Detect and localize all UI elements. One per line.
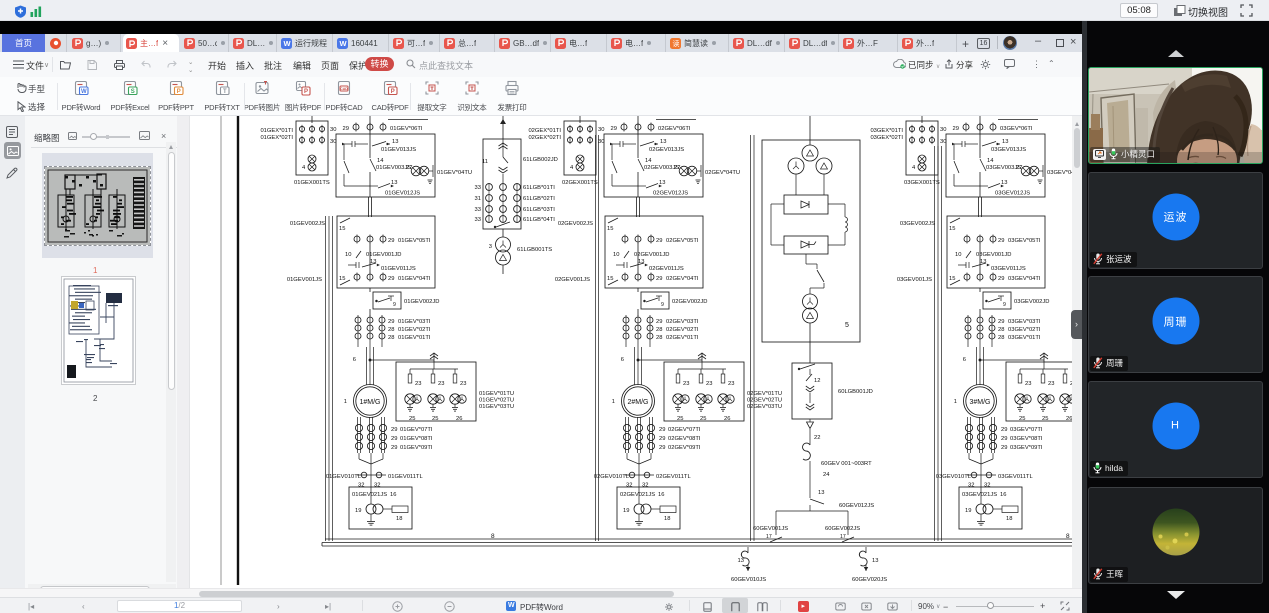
breaker 03GEV003JS: [953, 144, 955, 160]
svg-text:T: T: [223, 89, 227, 95]
resistor 18: [1002, 506, 1018, 513]
wire to surge cubicle: [370, 359, 434, 361]
CT 03GEV*04TI: [964, 274, 970, 280]
svg-text:14: 14: [987, 158, 994, 164]
svg-text:W: W: [339, 39, 347, 48]
bay 1 left fence: [325, 216, 327, 541]
svg-text:15: 15: [607, 226, 613, 232]
resistor 18: [660, 506, 676, 513]
svg-text:16: 16: [1000, 492, 1006, 498]
svg-text:3: 3: [489, 244, 492, 250]
svg-text:26: 26: [724, 416, 730, 422]
wire bus top bay 02: [637, 116, 639, 134]
svg-text:32: 32: [968, 483, 974, 489]
svg-text:28: 28: [656, 335, 662, 341]
svg-text:1: 1: [344, 399, 347, 405]
svg-text:02GEV011JS: 02GEV011JS: [649, 266, 684, 272]
svg-text:02GEV001JD: 02GEV001JD: [634, 252, 669, 258]
svg-text:13: 13: [391, 180, 397, 186]
svg-text:02GEV013JS: 02GEV013JS: [649, 147, 684, 153]
svg-text:30: 30: [330, 127, 336, 133]
svg-text:03GEV*05TI: 03GEV*05TI: [1008, 238, 1041, 244]
svg-text:13: 13: [660, 139, 666, 145]
svg-text:61LGB*02TI: 61LGB*02TI: [523, 196, 555, 202]
svg-text:18: 18: [664, 516, 670, 522]
bay 3 left fence: [934, 146, 936, 541]
svg-text:8: 8: [1066, 533, 1070, 540]
svg-text:30: 30: [940, 127, 946, 133]
svg-text:02GEV002JD: 02GEV002JD: [672, 299, 707, 305]
svg-text:9: 9: [1003, 302, 1006, 308]
svg-text:19: 19: [965, 508, 971, 514]
svg-text:1: 1: [954, 399, 957, 405]
svg-text:10: 10: [345, 252, 351, 258]
svg-text:02GEV*04TI: 02GEV*04TI: [666, 276, 699, 282]
svg-text:9: 9: [661, 302, 664, 308]
CT stack 01GEV*07TI..09TI: [357, 417, 359, 453]
svg-text:02GEV*01TU: 02GEV*01TU: [747, 391, 782, 397]
svg-text:03GEV*08TI: 03GEV*08TI: [1010, 436, 1043, 442]
disconnector 01GEV013JS: [342, 143, 352, 145]
svg-text:17: 17: [766, 534, 772, 540]
svg-text:33: 33: [475, 217, 481, 223]
svg-text:23: 23: [460, 381, 466, 387]
svg-text:03GEX*02TI: 03GEX*02TI: [870, 135, 903, 141]
excitation cubicle 5: [762, 140, 860, 342]
neutral transformer 19: [634, 504, 644, 514]
PT cubicle 03GEX001TS: [906, 121, 938, 175]
earthing switch 60GEV020JS: [865, 547, 867, 553]
svg-text:29: 29: [659, 436, 665, 442]
svg-text:1: 1: [612, 399, 615, 405]
svg-text:13: 13: [392, 139, 398, 145]
svg-text:15: 15: [339, 276, 345, 282]
svg-text:02GEV*08TI: 02GEV*08TI: [668, 436, 701, 442]
svg-text:02GEV*02TI: 02GEV*02TI: [666, 327, 699, 333]
svg-text:61LGB*03TI: 61LGB*03TI: [523, 207, 555, 213]
svg-text:60GEV001JS: 60GEV001JS: [753, 526, 788, 532]
svg-text:CAD: CAD: [340, 87, 348, 91]
svg-text:1#M/G: 1#M/G: [359, 399, 380, 406]
wire below 61LGB001TS: [502, 265, 504, 274]
svg-text:01GEV011JS: 01GEV011JS: [381, 266, 416, 272]
svg-text:16: 16: [658, 492, 664, 498]
switch in 61LGB002JD: [496, 222, 510, 227]
svg-text:29: 29: [953, 126, 959, 132]
wire split: [809, 505, 811, 511]
thumbnail 2: [61, 276, 136, 385]
wire to 60LGB001JD: [809, 323, 811, 363]
disconnector 03GEV013JS: [952, 143, 962, 145]
svg-text:02GEV001JS: 02GEV001JS: [555, 277, 590, 283]
thyristor bridge: [784, 236, 828, 254]
up arrow: [1168, 50, 1184, 57]
svg-text:23: 23: [683, 381, 689, 387]
svg-text:03GEV021JS: 03GEV021JS: [962, 492, 997, 498]
arrester cluster 01: [405, 394, 415, 404]
svg-text:13: 13: [659, 180, 665, 186]
arrester cluster 03: [1038, 394, 1048, 404]
svg-text:02GEX*02TI: 02GEX*02TI: [528, 135, 561, 141]
breaker cubicle bay 01: [336, 134, 435, 197]
svg-text:03GEV002JD: 03GEV002JD: [1014, 299, 1049, 305]
svg-text:29: 29: [656, 276, 662, 282]
neutral transformer 19: [976, 504, 986, 514]
CT 02GEV*05TI: [622, 236, 628, 242]
disconnector 01GEV011JS: [348, 264, 356, 266]
wire to surge cubicle: [980, 359, 1044, 361]
svg-text:01GEV010TL: 01GEV010TL: [326, 474, 362, 480]
bay 1/2 separator fence: [595, 135, 597, 541]
svg-text:25: 25: [432, 416, 438, 422]
drawing frame outer line: [220, 116, 222, 585]
svg-text:23: 23: [706, 381, 712, 387]
earthing switch 60GEV010JS: [747, 547, 749, 553]
svg-text:读: 读: [672, 39, 679, 48]
svg-text:03GEV*09TI: 03GEV*09TI: [1010, 445, 1043, 451]
svg-text:8: 8: [491, 533, 495, 540]
arrester cluster 02: [718, 394, 728, 404]
svg-text:6: 6: [963, 357, 966, 363]
svg-text:02GEV021JS: 02GEV021JS: [620, 492, 655, 498]
svg-text:01GEX*02TI: 01GEX*02TI: [260, 135, 293, 141]
CT 02GEV*04TI: [622, 274, 628, 280]
disconnect cubicle bay 02: [605, 216, 703, 288]
wire stack to generator 01: [366, 347, 368, 385]
svg-text:01GEV012JS: 01GEV012JS: [385, 191, 420, 197]
svg-text:28: 28: [388, 327, 394, 333]
svg-text:29: 29: [388, 276, 394, 282]
wire stack to generator 03: [976, 347, 978, 385]
arrow up: [500, 119, 506, 124]
surge cubicle 03GEV*TU: [1006, 362, 1086, 421]
svg-text:03GEV*07TI: 03GEV*07TI: [1010, 427, 1043, 433]
svg-text:01GEV011TL: 01GEV011TL: [388, 474, 423, 480]
svg-text:23: 23: [1048, 381, 1054, 387]
surge cubicle 02GEV*TU: [664, 362, 744, 421]
svg-text:6: 6: [621, 357, 624, 363]
svg-text:9: 9: [393, 302, 396, 308]
panel scrollbars: [166, 142, 176, 582]
svg-text:23: 23: [438, 381, 444, 387]
rectifier bridge: [784, 195, 828, 214]
svg-text:13: 13: [738, 558, 744, 564]
svg-text:23: 23: [415, 381, 421, 387]
svg-text:02GEV*03TU: 02GEV*03TU: [747, 404, 782, 410]
svg-text:03GEX*01TI: 03GEX*01TI: [870, 128, 903, 134]
arrester cluster 03: [1015, 394, 1025, 404]
svg-text:19: 19: [355, 508, 361, 514]
svg-text:30: 30: [940, 139, 946, 145]
svg-text:01GEV*06TI: 01GEV*06TI: [390, 126, 423, 132]
svg-text:14: 14: [645, 158, 652, 164]
wire converge: [358, 453, 360, 459]
svg-text:10: 10: [613, 252, 619, 258]
svg-text:30: 30: [330, 139, 336, 145]
wire loop: [771, 203, 784, 205]
CT 01GEV*04TI: [354, 274, 360, 280]
svg-text:5: 5: [845, 322, 849, 329]
CT 03GEV*05TI: [964, 236, 970, 242]
svg-text:2#M/G: 2#M/G: [627, 399, 648, 406]
down arrow: [1167, 591, 1185, 599]
svg-text:31: 31: [475, 196, 481, 202]
disconnector 60GEV012JS: [809, 461, 811, 498]
arrester cluster 03: [1060, 394, 1070, 404]
capacitor 23 (03): [1042, 369, 1044, 374]
svg-text:15: 15: [949, 226, 955, 232]
svg-text:32: 32: [984, 483, 990, 489]
drawing frame inner thick line: [237, 116, 239, 585]
wire 61LGB feeder: [502, 116, 504, 139]
svg-text:19: 19: [623, 508, 629, 514]
CT 01GEV*05TI: [354, 236, 360, 242]
svg-text:4: 4: [302, 165, 306, 171]
excitation transformer pair: [809, 288, 811, 294]
svg-text:23: 23: [728, 381, 734, 387]
svg-text:P: P: [304, 89, 308, 95]
svg-text:29: 29: [659, 427, 665, 433]
svg-text:13: 13: [872, 558, 878, 564]
svg-text:23: 23: [1025, 381, 1031, 387]
svg-text:29: 29: [388, 238, 394, 244]
svg-text:02GEX*01TI: 02GEX*01TI: [528, 128, 561, 134]
arrester cluster 02: [673, 394, 683, 404]
svg-text:01GEV001JD: 01GEV001JD: [366, 252, 401, 258]
tile 张运波: [1088, 172, 1263, 269]
svg-text:18: 18: [396, 516, 402, 522]
disconnect cubicle bay 01: [337, 216, 435, 288]
webcam tile 小精灵: [1088, 67, 1263, 164]
svg-text:30: 30: [598, 127, 604, 133]
PT cubicle 02GEX001TS: [564, 121, 596, 175]
svg-text:W: W: [283, 39, 291, 48]
inductor: [845, 217, 848, 232]
svg-text:60LGB001JD: 60LGB001JD: [838, 389, 873, 395]
svg-text:03GEV*03TI: 03GEV*03TI: [1008, 319, 1041, 325]
svg-text:28: 28: [998, 327, 1004, 333]
svg-text:61LGB002JD: 61LGB002JD: [523, 157, 558, 163]
svg-text:02GEV012JS: 02GEV012JS: [653, 191, 688, 197]
breaker cubicle bay 03: [946, 134, 1045, 197]
svg-text:13: 13: [1002, 139, 1008, 145]
svg-text:26: 26: [456, 416, 462, 422]
svg-text:03GEV010TL: 03GEV010TL: [936, 474, 972, 480]
neutral transformer 19: [366, 504, 376, 514]
svg-text:W: W: [81, 89, 87, 95]
svg-text:01GEX001TS: 01GEX001TS: [294, 180, 330, 186]
svg-text:60GEV010JS: 60GEV010JS: [731, 577, 766, 583]
ground at breaker box: [696, 179, 701, 181]
svg-text:01GEV*04TI: 01GEV*04TI: [398, 276, 431, 282]
wire excitation feeder: [809, 116, 811, 145]
svg-text:4: 4: [912, 165, 916, 171]
svg-text:03GEV*04TI: 03GEV*04TI: [1008, 276, 1041, 282]
thumbnail 1 selected: [42, 153, 153, 258]
svg-text:29: 29: [391, 436, 397, 442]
svg-text:60GEV 001~003RT: 60GEV 001~003RT: [821, 461, 872, 467]
earthing switch 02GEV002JD: [637, 288, 639, 292]
svg-text:61LGB001TS: 61LGB001TS: [517, 247, 552, 253]
wire stack to generator 02: [634, 347, 636, 385]
svg-text:01GEV*08TI: 01GEV*08TI: [400, 436, 433, 442]
svg-text:15: 15: [339, 226, 345, 232]
svg-text:03GEV002JS: 03GEV002JS: [900, 221, 935, 227]
svg-text:29: 29: [1001, 436, 1007, 442]
svg-text:25: 25: [1042, 416, 1048, 422]
tile 周珊: [1088, 276, 1263, 373]
svg-text:32: 32: [374, 483, 380, 489]
disconnector 03GEV011JS: [958, 264, 966, 266]
svg-text:14: 14: [377, 158, 384, 164]
svg-text:29: 29: [998, 238, 1004, 244]
svg-text:29: 29: [998, 319, 1004, 325]
svg-text:25: 25: [1019, 416, 1025, 422]
svg-text:03GEV*01TI: 03GEV*01TI: [1008, 335, 1041, 341]
capacitor 23 (02): [722, 369, 724, 374]
svg-text:29: 29: [343, 126, 349, 132]
neutral cubicle 03GEV021JS: [959, 487, 1022, 529]
svg-text:17: 17: [840, 534, 846, 540]
svg-text:01GEV*03TI: 01GEV*03TI: [398, 319, 431, 325]
svg-text:02GEV*05TI: 02GEV*05TI: [666, 238, 699, 244]
fuse 60GEV 001~003RT: [809, 429, 811, 445]
svg-text:02GEV002JS: 02GEV002JS: [558, 221, 593, 227]
capacitor 23 (01): [432, 369, 434, 374]
capacitor 23 (01): [454, 369, 456, 374]
CT stack 03GEV*01TI..03TI: [967, 315, 969, 347]
svg-text:02GEV*03TI: 02GEV*03TI: [666, 319, 699, 325]
capacitor 23 (01): [409, 369, 411, 374]
svg-text:25: 25: [677, 416, 683, 422]
CT stack 02GEV*07TI..09TI: [625, 417, 627, 453]
capacitor 23 (02): [677, 369, 679, 374]
svg-text:02GEV*09TI: 02GEV*09TI: [668, 445, 701, 451]
bottom frame lines: [325, 538, 1074, 540]
svg-text:01GEX*01TI: 01GEX*01TI: [260, 128, 293, 134]
surge cubicle 01GEV*TU: [396, 362, 476, 421]
wire bus top bay 01: [369, 116, 371, 134]
svg-text:P: P: [391, 89, 395, 95]
svg-text:61LGB*04TI: 61LGB*04TI: [523, 217, 555, 223]
disconnector 02GEV013JS: [610, 143, 620, 145]
svg-text:03GEV*02TI: 03GEV*02TI: [1008, 327, 1041, 333]
svg-text:02GEV011TL: 02GEV011TL: [656, 474, 691, 480]
arrester cluster 01: [450, 394, 460, 404]
svg-text:01GEV*07TI: 01GEV*07TI: [400, 427, 433, 433]
capacitor 23 (02): [700, 369, 702, 374]
ground at breaker box: [428, 179, 433, 181]
svg-text:P: P: [177, 89, 181, 95]
breaker 01GEV003JS: [343, 144, 345, 160]
svg-text:29: 29: [1001, 427, 1007, 433]
open arrow: [809, 419, 811, 422]
svg-text:22: 22: [814, 435, 820, 441]
svg-text:03GEV*06TI: 03GEV*06TI: [1000, 126, 1033, 132]
svg-text:S: S: [131, 89, 135, 95]
tile 王晖: [1088, 487, 1263, 584]
svg-text:01GEV002JD: 01GEV002JD: [404, 299, 439, 305]
svg-text:29: 29: [391, 445, 397, 451]
svg-text:28: 28: [656, 327, 662, 333]
excitation transformer trio: [802, 145, 818, 161]
svg-text:13: 13: [1001, 180, 1007, 186]
svg-text:02GEV*06TI: 02GEV*06TI: [658, 126, 691, 132]
wire generator bus bay 03: [978, 197, 980, 217]
disconnector 02GEV011JS: [616, 264, 624, 266]
transformer 61LGB001TS: [502, 229, 504, 237]
svg-text:01GEV*09TI: 01GEV*09TI: [400, 445, 433, 451]
svg-text:29: 29: [659, 445, 665, 451]
earthing switch 01GEV002JD: [369, 288, 371, 292]
disconnect cubicle bay 03: [947, 216, 1045, 288]
svg-text:25: 25: [700, 416, 706, 422]
CT stack 01GEV*01TI..03TI: [357, 315, 359, 347]
cubicle 61LGB002JD: [483, 139, 521, 229]
CT group 61LGB*01TI..04TI: [488, 183, 490, 223]
svg-text:10: 10: [955, 252, 961, 258]
tile hilda: [1088, 381, 1263, 478]
svg-text:60GEV012JS: 60GEV012JS: [839, 503, 874, 509]
svg-text:02GEV010TL: 02GEV010TL: [594, 474, 630, 480]
resistor 18: [392, 506, 408, 513]
wire to surge cubicle: [638, 359, 702, 361]
svg-text:28: 28: [998, 335, 1004, 341]
PT cubicle 01GEX001TS: [296, 121, 328, 175]
svg-text:29: 29: [656, 238, 662, 244]
CT stack 02GEV*01TI..03TI: [625, 315, 627, 347]
svg-text:60GEV002JS: 60GEV002JS: [825, 526, 860, 532]
svg-text:3#M/G: 3#M/G: [969, 399, 990, 406]
svg-text:32: 32: [642, 483, 648, 489]
svg-text:29: 29: [388, 319, 394, 325]
svg-text:01GEV*02TU: 01GEV*02TU: [479, 398, 514, 404]
svg-text:01GEV021JS: 01GEV021JS: [352, 492, 387, 498]
svg-text:61LGB*01TI: 61LGB*01TI: [523, 185, 555, 191]
svg-text:01GEV*05TI: 01GEV*05TI: [398, 238, 431, 244]
svg-text:02GEV*04TU: 02GEV*04TU: [705, 170, 740, 176]
flyout tab: [1071, 310, 1082, 339]
svg-text:25: 25: [409, 416, 415, 422]
svg-text:03GEV*04TU: 03GEV*04TU: [1047, 170, 1072, 176]
svg-text:11: 11: [482, 159, 488, 165]
neutral cubicle 01GEV021JS: [349, 487, 412, 529]
svg-text:28: 28: [388, 335, 394, 341]
svg-text:29: 29: [611, 126, 617, 132]
cubicle 60LGB001JD: [792, 363, 832, 419]
svg-text:33: 33: [475, 207, 481, 213]
svg-text:03GEX001TS: 03GEX001TS: [904, 180, 940, 186]
wire converge: [626, 453, 628, 459]
svg-text:30: 30: [598, 139, 604, 145]
disconnector 01GEV012JS: [370, 185, 378, 187]
svg-text:29: 29: [656, 319, 662, 325]
wire converge: [968, 453, 970, 459]
svg-text:01GEV*04TU: 01GEV*04TU: [437, 170, 472, 176]
wire bus top bay 03: [979, 116, 981, 134]
svg-text:15: 15: [949, 276, 955, 282]
breaker 02GEV003JS: [611, 144, 613, 160]
svg-text:15: 15: [607, 276, 613, 282]
svg-text:03GEV012JS: 03GEV012JS: [995, 191, 1030, 197]
svg-text:24: 24: [823, 472, 830, 478]
svg-text:02GEX001TS: 02GEX001TS: [562, 180, 598, 186]
svg-text:12: 12: [814, 378, 820, 384]
svg-text:29: 29: [1001, 445, 1007, 451]
arrester cluster 01: [428, 394, 438, 404]
capacitor 23 (03): [1064, 369, 1066, 374]
earthing switch 03GEV002JD: [979, 288, 981, 292]
